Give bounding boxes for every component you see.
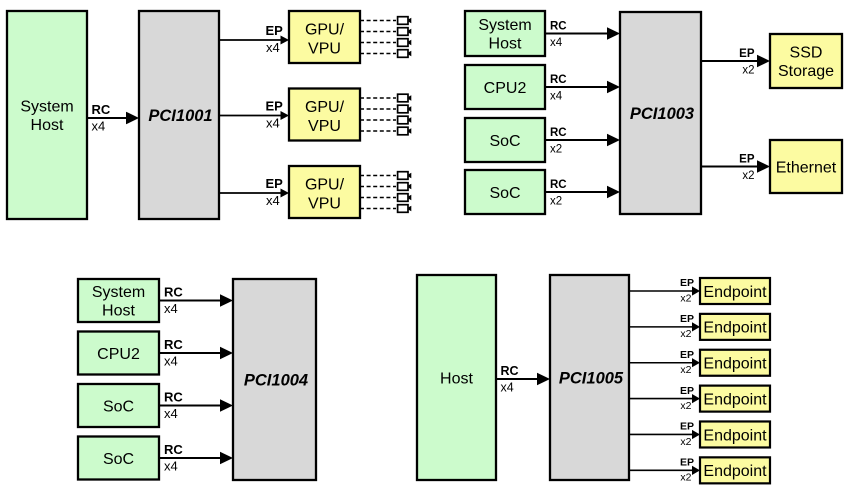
svg-text:RC: RC (164, 285, 183, 300)
camera sensor 2.4 with dashed link (360, 127, 411, 135)
svg-text:Host: Host (440, 370, 473, 387)
arrow: RC x2 SoC A to PCI1003 (545, 134, 620, 147)
svg-text:x4: x4 (501, 381, 514, 395)
svg-text:EP: EP (680, 421, 694, 433)
svg-text:EP: EP (680, 313, 694, 325)
svg-text:System: System (92, 284, 145, 301)
svg-text:x2: x2 (742, 170, 754, 182)
svg-text:x4: x4 (164, 301, 178, 316)
svg-text:SoC: SoC (489, 185, 520, 202)
svg-text:x4: x4 (164, 406, 178, 421)
camera sensor 3.2 with dashed link (360, 183, 411, 191)
arrow: RC x4 CPU2 to PCI1004 (159, 347, 233, 360)
svg-text:PCI1001: PCI1001 (148, 107, 212, 125)
box: Endpoint 4 (700, 386, 770, 412)
svg-text:Endpoint: Endpoint (703, 284, 767, 301)
svg-text:Host: Host (31, 117, 64, 134)
box: System Host (top-left) (7, 11, 87, 219)
arrow: RC x4 System Host to PCI1001 (87, 112, 139, 125)
box: Endpoint 5 (700, 421, 770, 447)
svg-text:x4: x4 (92, 119, 106, 134)
arrow: EP x2 to Endpoint 5 (629, 430, 700, 439)
svg-text:RC: RC (164, 442, 183, 457)
arrow: RC x2 SoC B to PCI1003 (545, 186, 620, 199)
svg-text:x2: x2 (550, 144, 562, 156)
box: SSD Storage (770, 34, 842, 88)
box: CPU2 (top-right) (465, 65, 545, 109)
box: System Host (top-right) (465, 11, 545, 56)
camera sensor 1.4 with dashed link (360, 50, 411, 58)
svg-text:EP: EP (739, 48, 755, 60)
box: PCI1004 switch (233, 279, 316, 480)
svg-text:EP: EP (680, 277, 694, 289)
svg-text:EP: EP (266, 176, 284, 191)
svg-text:Ethernet: Ethernet (776, 159, 837, 176)
svg-text:x2: x2 (680, 292, 691, 304)
arrow: RC x4 SoC B to PCI1004 (159, 452, 233, 465)
camera sensor 2.1 with dashed link (360, 94, 411, 102)
camera sensor 1.2 with dashed link (360, 28, 411, 36)
box: GPU/VPU 1 (289, 11, 360, 63)
svg-text:SoC: SoC (489, 133, 520, 150)
box: GPU/VPU 2 (289, 89, 360, 141)
svg-text:Host: Host (489, 36, 522, 53)
svg-text:GPU/: GPU/ (305, 99, 345, 116)
svg-text:EP: EP (680, 385, 694, 397)
arrow: RC x4 System Host to PCI1004 (159, 294, 233, 307)
svg-text:GPU/: GPU/ (305, 21, 345, 38)
svg-text:x2: x2 (680, 472, 691, 484)
box: System Host (bottom-left) (78, 279, 159, 322)
svg-text:x4: x4 (164, 459, 178, 474)
svg-text:Host: Host (102, 303, 135, 320)
svg-text:RC: RC (550, 21, 567, 33)
svg-text:x2: x2 (680, 400, 691, 412)
svg-text:x2: x2 (742, 65, 754, 77)
box: PCI1003 switch (620, 12, 701, 214)
svg-text:x2: x2 (550, 196, 562, 208)
svg-text:x4: x4 (266, 116, 280, 131)
arrow: RC x4 SoC A to PCI1004 (159, 399, 233, 412)
arrow: EP x4 to GPU/VPU 1 (219, 36, 289, 45)
box: PCI1001 switch (139, 11, 219, 219)
svg-text:EP: EP (739, 154, 755, 166)
camera sensor 3.3 with dashed link (360, 194, 411, 202)
svg-text:Endpoint: Endpoint (703, 463, 767, 480)
svg-text:PCI1005: PCI1005 (559, 370, 624, 388)
svg-text:RC: RC (92, 102, 111, 117)
box: Endpoint 2 (700, 314, 770, 340)
svg-text:VPU: VPU (308, 118, 341, 135)
svg-text:EP: EP (266, 99, 284, 114)
camera sensor 1.1 with dashed link (360, 17, 411, 25)
svg-text:CPU2: CPU2 (97, 346, 140, 363)
svg-text:x4: x4 (550, 37, 563, 49)
svg-text:SoC: SoC (103, 451, 134, 468)
box: Ethernet (770, 140, 842, 193)
arrow: EP x2 to Endpoint 1 (629, 286, 700, 295)
box: SoC A (bottom-left) (78, 384, 159, 427)
arrow: EP x2 to Endpoint 6 (629, 466, 700, 475)
arrow: EP x4 to GPU/VPU 3 (219, 189, 289, 198)
svg-text:RC: RC (501, 364, 519, 378)
svg-text:RC: RC (550, 74, 567, 86)
svg-text:PCI1003: PCI1003 (630, 105, 694, 123)
arrow: RC x4 Host to PCI1005 (496, 373, 550, 386)
arrow: EP x2 to Endpoint 2 (629, 322, 700, 331)
svg-text:SSD: SSD (790, 44, 823, 61)
svg-text:VPU: VPU (308, 40, 341, 57)
arrow: EP x2 to Endpoint 3 (629, 358, 700, 367)
box: Host (bottom-right) (417, 275, 496, 480)
svg-text:GPU/: GPU/ (305, 176, 345, 193)
box: SoC B (bottom-left) (78, 437, 159, 480)
camera sensor 3.4 with dashed link (360, 205, 411, 213)
svg-text:EP: EP (680, 349, 694, 361)
svg-text:Storage: Storage (778, 63, 834, 80)
svg-text:VPU: VPU (308, 195, 341, 212)
box: Endpoint 3 (700, 350, 770, 376)
camera sensor 2.2 with dashed link (360, 105, 411, 113)
svg-text:Endpoint: Endpoint (703, 356, 767, 373)
box: SoC B (top-right) (465, 170, 545, 214)
svg-text:x4: x4 (164, 354, 178, 369)
svg-text:x4: x4 (266, 193, 280, 208)
svg-text:Endpoint: Endpoint (703, 391, 767, 408)
camera sensor 3.1 with dashed link (360, 172, 411, 180)
arrow: EP x4 to GPU/VPU 2 (219, 111, 289, 120)
svg-text:System: System (20, 98, 73, 115)
arrow: EP x2 PCI1003 to Ethernet (701, 160, 770, 173)
arrow: EP x2 PCI1003 to SSD Storage (701, 55, 770, 68)
box: SoC A (top-right) (465, 118, 545, 162)
svg-text:PCI1004: PCI1004 (244, 372, 308, 390)
arrow: RC x4 System Host to PCI1003 (545, 27, 620, 40)
svg-text:RC: RC (164, 390, 183, 405)
svg-text:CPU2: CPU2 (484, 80, 527, 97)
svg-text:Endpoint: Endpoint (703, 427, 767, 444)
arrow: RC x4 CPU2 to PCI1003 (545, 81, 620, 94)
svg-text:x2: x2 (680, 364, 691, 376)
arrow: EP x2 to Endpoint 4 (629, 394, 700, 403)
box: Endpoint 6 (700, 457, 770, 483)
box: PCI1005 switch (550, 275, 629, 480)
box: GPU/VPU 3 (289, 166, 360, 218)
svg-text:System: System (478, 17, 531, 34)
svg-text:EP: EP (266, 23, 284, 38)
camera sensor 2.3 with dashed link (360, 116, 411, 124)
box: Endpoint 1 (700, 278, 770, 304)
svg-text:RC: RC (550, 127, 567, 139)
svg-text:x4: x4 (550, 91, 563, 103)
svg-text:x4: x4 (266, 40, 280, 55)
svg-text:x2: x2 (680, 436, 691, 448)
svg-text:SoC: SoC (103, 398, 134, 415)
svg-text:Endpoint: Endpoint (703, 320, 767, 337)
box: CPU2 (bottom-left) (78, 332, 159, 375)
svg-text:EP: EP (680, 457, 694, 469)
camera sensor 1.3 with dashed link (360, 39, 411, 47)
svg-text:RC: RC (550, 179, 567, 191)
svg-text:RC: RC (164, 337, 183, 352)
svg-text:x2: x2 (680, 328, 691, 340)
